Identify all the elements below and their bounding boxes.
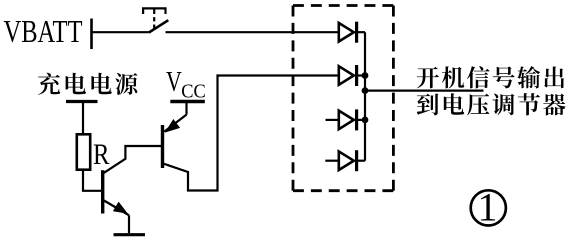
node VBATT terminal [90,19,93,50]
wire cathode bus [364,32,366,161]
diode D4 [325,150,365,171]
junction dot D3 [362,117,369,124]
label charging power 充电电源 [38,73,138,95]
resistor R [77,134,90,169]
switch S1 push-button actuator [143,8,165,29]
transistor Q2 emitter [164,115,186,133]
wire VBATT to switch [92,31,149,33]
svg-text:R: R [93,139,110,171]
switch S1 lever [149,20,169,32]
diode D2 [339,65,365,86]
power rail bar (charging supply) [66,100,98,103]
svg-text:CC: CC [181,81,206,103]
junction dot D2 [362,72,369,79]
wire rail to resistor R [82,102,84,135]
diode D1 [339,22,365,43]
svg-text:1: 1 [478,185,498,230]
wire output [365,89,484,91]
wire Q1 collector to Q2 base [104,146,161,173]
wire Q1 emitter to ground [128,215,130,233]
diode D3 [326,109,366,130]
wire Q2 collector to diode D2 [164,76,339,191]
callout circle 1 [471,185,506,230]
label output line1 开机信号输出 [417,66,565,88]
transistor Q1 emitter [104,201,129,216]
ground [114,233,146,236]
dashed isolation box [293,6,393,191]
label output line2 到电压调节器 [417,93,566,115]
svg-text:V: V [166,67,182,98]
wire Vcc to Q2 emitter [185,102,187,115]
power rail bar Vcc [170,100,205,103]
label Vcc [166,67,206,103]
transistor Q1 base bar [101,170,104,213]
wire switch to diode D1 [166,31,339,33]
wire resistor to Q1 base [83,170,101,191]
junction dot output [362,87,369,94]
transistor Q2 base bar [161,125,164,168]
svg-text:VBATT: VBATT [4,14,83,49]
